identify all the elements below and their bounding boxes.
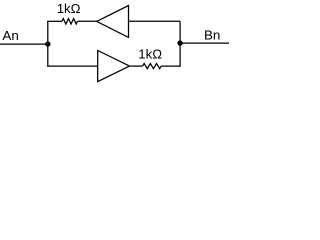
op-amp U1 buffer pointing left (top) bbox=[97, 6, 129, 38]
wire resistor to right bus bbox=[161, 65, 181, 67]
svg-text:An: An bbox=[2, 28, 18, 43]
op-amp U2 buffer pointing right (bottom) bbox=[98, 51, 130, 82]
wire left vertical bus bbox=[47, 21, 49, 66]
wire bottom rail left segment bbox=[47, 65, 98, 67]
wire top amp input to right bus bbox=[129, 20, 181, 22]
wire resistor to top amp output bbox=[78, 20, 97, 22]
svg-text:1kΩ: 1kΩ bbox=[138, 47, 162, 62]
wire bottom amp output to resistor bbox=[130, 65, 143, 67]
wire right vertical bus bbox=[179, 21, 181, 66]
wire right bus to Bn bbox=[180, 42, 229, 44]
svg-text:1kΩ: 1kΩ bbox=[57, 1, 81, 16]
resistor R-bottom zigzag bbox=[143, 63, 162, 68]
junction dot at An node bbox=[45, 41, 50, 46]
resistor R-top zigzag bbox=[62, 19, 78, 24]
wire An to left bus bbox=[0, 43, 48, 45]
svg-text:Bn: Bn bbox=[204, 28, 220, 43]
junction dot at Bn node bbox=[177, 40, 182, 45]
wire top rail left segment bbox=[47, 20, 62, 22]
